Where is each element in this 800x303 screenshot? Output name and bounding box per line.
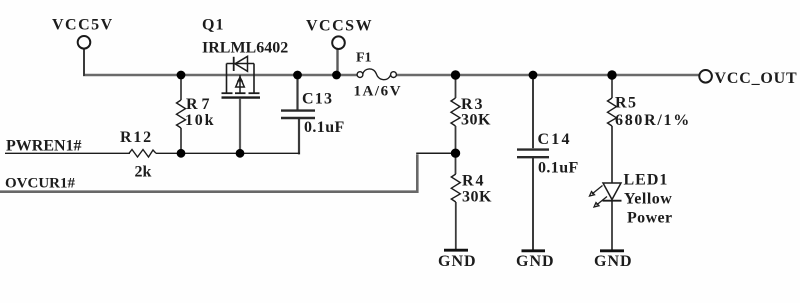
svg-text:VCC5V: VCC5V bbox=[52, 17, 114, 34]
svg-text:1A/6V: 1A/6V bbox=[354, 84, 403, 100]
svg-text:C13: C13 bbox=[302, 91, 333, 108]
svg-text:R3: R3 bbox=[461, 96, 485, 113]
svg-text:GND: GND bbox=[516, 253, 555, 270]
svg-text:R5: R5 bbox=[615, 95, 638, 112]
svg-text:F1: F1 bbox=[356, 51, 372, 66]
svg-text:OVCUR1#: OVCUR1# bbox=[5, 176, 75, 192]
svg-text:VCCSW: VCCSW bbox=[306, 18, 373, 35]
svg-text:R7: R7 bbox=[186, 96, 214, 113]
svg-text:Yellow: Yellow bbox=[624, 191, 672, 208]
svg-text:10k: 10k bbox=[185, 112, 215, 129]
svg-text:Q1: Q1 bbox=[202, 17, 224, 34]
svg-text:30K: 30K bbox=[461, 112, 491, 129]
svg-text:2k: 2k bbox=[135, 164, 152, 181]
svg-text:VCC_OUT: VCC_OUT bbox=[715, 70, 798, 87]
svg-text:IRLML6402: IRLML6402 bbox=[202, 40, 288, 57]
svg-text:R12: R12 bbox=[120, 129, 153, 146]
svg-text:GND: GND bbox=[438, 253, 477, 270]
svg-text:C14: C14 bbox=[538, 131, 572, 148]
svg-text:0.1uF: 0.1uF bbox=[538, 160, 579, 177]
svg-text:680R/1%: 680R/1% bbox=[615, 112, 691, 129]
svg-text:GND: GND bbox=[594, 253, 633, 270]
svg-text:0.1uF: 0.1uF bbox=[304, 119, 345, 136]
svg-text:R4: R4 bbox=[462, 173, 486, 190]
svg-text:LED1: LED1 bbox=[624, 172, 669, 189]
svg-text:PWREN1#: PWREN1# bbox=[6, 138, 82, 155]
svg-text:30K: 30K bbox=[462, 189, 492, 206]
svg-text:Power: Power bbox=[627, 210, 673, 227]
